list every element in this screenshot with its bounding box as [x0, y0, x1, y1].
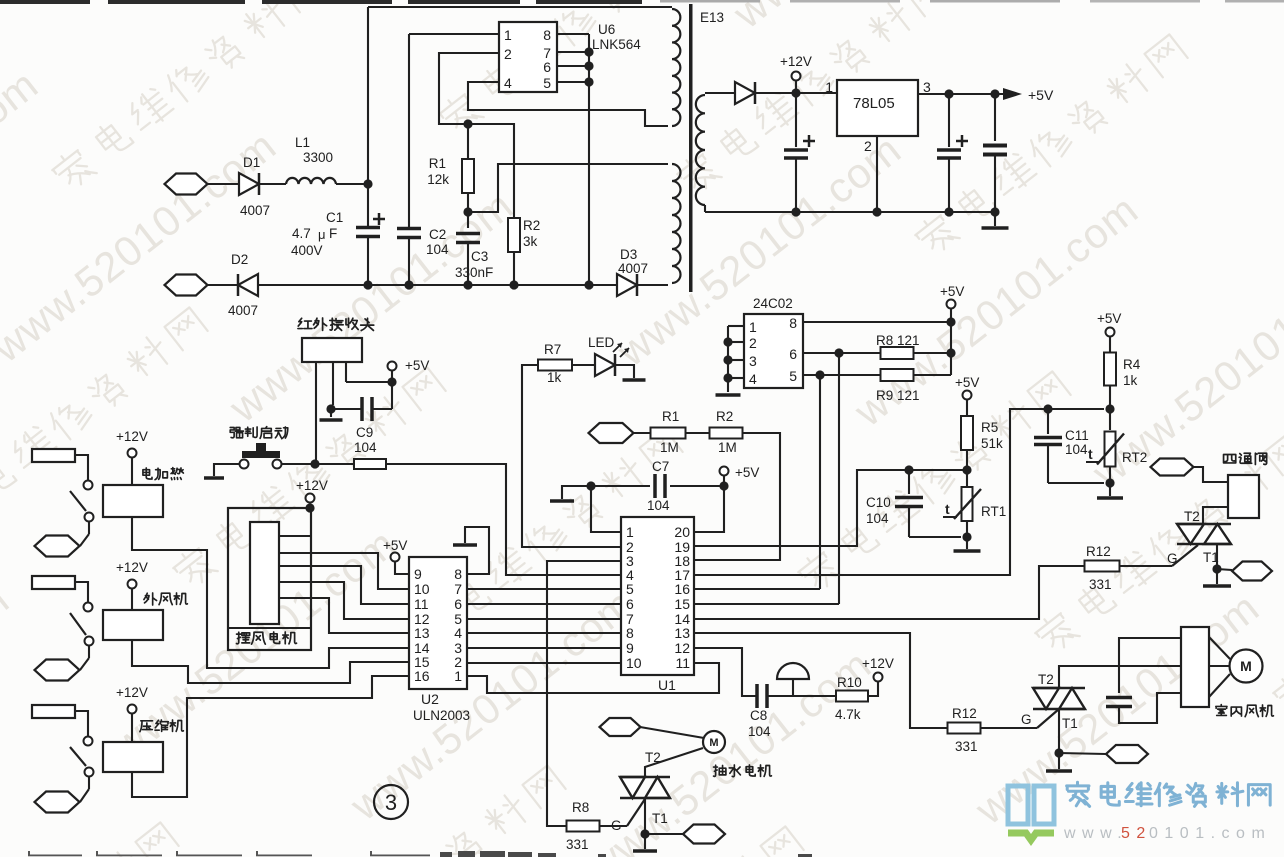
svg-text:+5V: +5V: [1097, 311, 1121, 326]
svg-text:104: 104: [354, 440, 377, 455]
svg-text:12k: 12k: [427, 172, 449, 187]
svg-text:8: 8: [789, 315, 797, 331]
svg-text:10: 10: [414, 581, 430, 597]
svg-text:R12: R12: [1086, 544, 1111, 559]
svg-text:400V: 400V: [291, 243, 323, 258]
svg-text:330nF: 330nF: [455, 265, 493, 280]
svg-text:11: 11: [414, 596, 429, 612]
svg-text:1M: 1M: [660, 440, 679, 455]
svg-text:D1: D1: [243, 155, 260, 170]
svg-text:1: 1: [626, 524, 634, 540]
svg-text:6: 6: [789, 346, 797, 362]
svg-text:R12: R12: [952, 706, 977, 721]
svg-text:RT2: RT2: [1122, 450, 1147, 465]
svg-text:1: 1: [504, 27, 512, 43]
svg-text:1: 1: [749, 319, 757, 335]
svg-text:2: 2: [504, 46, 512, 62]
svg-text:12: 12: [674, 640, 690, 656]
svg-text:R7: R7: [544, 342, 561, 357]
svg-text:T2: T2: [1184, 509, 1200, 524]
svg-text:9: 9: [626, 640, 634, 656]
svg-text:F: F: [329, 226, 337, 241]
svg-text:L1: L1: [295, 135, 310, 150]
svg-text:4: 4: [504, 75, 512, 91]
svg-text:LED: LED: [588, 335, 615, 350]
svg-text:+12V: +12V: [780, 54, 812, 69]
svg-text:2: 2: [864, 138, 872, 154]
svg-text:μ: μ: [318, 227, 326, 242]
svg-text:1k: 1k: [1123, 373, 1138, 388]
svg-text:4007: 4007: [240, 203, 270, 218]
svg-text:R2: R2: [716, 409, 733, 424]
svg-text:331: 331: [955, 739, 978, 754]
svg-text:331: 331: [566, 837, 589, 852]
svg-text:T1: T1: [1203, 550, 1219, 565]
svg-text:104: 104: [1065, 442, 1088, 457]
svg-text:4007: 4007: [618, 261, 648, 276]
svg-text:9: 9: [414, 566, 422, 582]
svg-text:104: 104: [647, 498, 670, 513]
svg-text:+5V: +5V: [735, 465, 759, 480]
svg-text:ULN2003: ULN2003: [413, 708, 470, 723]
svg-text:R5: R5: [981, 420, 998, 435]
svg-text:+5V: +5V: [1028, 87, 1054, 103]
svg-text:5: 5: [626, 581, 634, 597]
svg-text:U1: U1: [658, 677, 676, 693]
svg-text:+12V: +12V: [862, 656, 894, 671]
svg-text:3300: 3300: [303, 150, 333, 165]
svg-text:+5V: +5V: [955, 375, 979, 390]
svg-text:6: 6: [543, 59, 551, 75]
svg-text:8: 8: [454, 566, 462, 582]
svg-text:104: 104: [426, 242, 449, 257]
svg-text:R1: R1: [662, 409, 679, 424]
svg-text:1: 1: [825, 79, 833, 95]
svg-text:1M: 1M: [718, 440, 737, 455]
svg-text:C1: C1: [326, 210, 343, 225]
svg-text:D3: D3: [620, 247, 637, 262]
svg-text:20: 20: [674, 524, 690, 540]
svg-text:4007: 4007: [228, 303, 258, 318]
svg-text:24C02: 24C02: [753, 296, 793, 311]
svg-text:C3: C3: [471, 249, 488, 264]
svg-text:13: 13: [414, 625, 430, 641]
svg-text:LNK564: LNK564: [592, 37, 641, 52]
svg-text:M: M: [1240, 658, 1252, 674]
svg-text:0101.com: 0101.com: [1149, 825, 1271, 842]
svg-text:1k: 1k: [547, 370, 562, 385]
svg-text:R10: R10: [837, 675, 862, 690]
svg-text:+12V: +12V: [116, 560, 148, 575]
svg-text:RT1: RT1: [981, 504, 1006, 519]
svg-text:104: 104: [748, 724, 771, 739]
svg-text:C7: C7: [652, 459, 669, 474]
svg-text:M: M: [709, 737, 718, 749]
svg-text:5: 5: [789, 368, 797, 384]
svg-text:3: 3: [749, 353, 757, 369]
svg-text:R8: R8: [572, 800, 589, 815]
svg-text:D2: D2: [231, 252, 248, 267]
svg-text:+12V: +12V: [116, 685, 148, 700]
svg-text:+12V: +12V: [296, 478, 328, 493]
svg-text:104: 104: [866, 511, 889, 526]
svg-text:3: 3: [385, 790, 397, 815]
svg-text:3k: 3k: [523, 234, 538, 249]
svg-text:R1: R1: [429, 156, 446, 171]
svg-text:R4: R4: [1123, 357, 1141, 372]
svg-text:C2: C2: [429, 227, 446, 242]
svg-text:331: 331: [1089, 577, 1112, 592]
svg-text:T2: T2: [1038, 672, 1054, 687]
svg-text:8: 8: [626, 625, 634, 641]
svg-text:+5V: +5V: [383, 538, 407, 553]
svg-text:T1: T1: [652, 811, 668, 826]
svg-text:E13: E13: [700, 10, 724, 25]
svg-text:10: 10: [626, 655, 642, 671]
svg-text:11: 11: [675, 655, 690, 671]
svg-text:+5V: +5V: [405, 358, 429, 373]
svg-text:C9: C9: [356, 425, 373, 440]
svg-text:U6: U6: [598, 22, 615, 37]
svg-text:+12V: +12V: [116, 429, 148, 444]
svg-text:3: 3: [923, 79, 931, 95]
svg-text:4.7: 4.7: [292, 226, 311, 241]
svg-text:5: 5: [543, 75, 551, 91]
svg-text:8: 8: [543, 27, 551, 43]
svg-text:C8: C8: [750, 708, 767, 723]
svg-text:t: t: [945, 501, 950, 517]
svg-text:G: G: [611, 818, 622, 833]
svg-text:R8 121: R8 121: [876, 333, 920, 348]
svg-text:7: 7: [454, 581, 462, 597]
svg-text:R9 121: R9 121: [876, 388, 920, 403]
svg-text:R2: R2: [523, 218, 540, 233]
svg-text:www.: www.: [1063, 825, 1128, 842]
svg-text:4.7k: 4.7k: [835, 707, 861, 722]
svg-text:4: 4: [454, 625, 462, 641]
svg-text:C11: C11: [1065, 428, 1089, 443]
svg-text:15: 15: [674, 596, 690, 612]
svg-text:52: 52: [1121, 825, 1152, 842]
svg-text:51k: 51k: [981, 436, 1003, 451]
svg-text:U2: U2: [421, 691, 439, 707]
svg-text:C10: C10: [866, 495, 891, 510]
svg-text:1: 1: [454, 668, 462, 684]
svg-text:t: t: [1088, 446, 1093, 462]
svg-text:+5V: +5V: [940, 284, 964, 299]
svg-text:78L05: 78L05: [853, 95, 895, 112]
svg-text:4: 4: [749, 371, 757, 387]
svg-text:2: 2: [749, 335, 757, 351]
svg-text:6: 6: [454, 596, 462, 612]
svg-text:13: 13: [674, 625, 690, 641]
svg-text:16: 16: [674, 581, 690, 597]
svg-text:6: 6: [626, 596, 634, 612]
svg-text:16: 16: [414, 668, 430, 684]
svg-text:T1: T1: [1062, 716, 1078, 731]
svg-text:G: G: [1021, 712, 1032, 727]
